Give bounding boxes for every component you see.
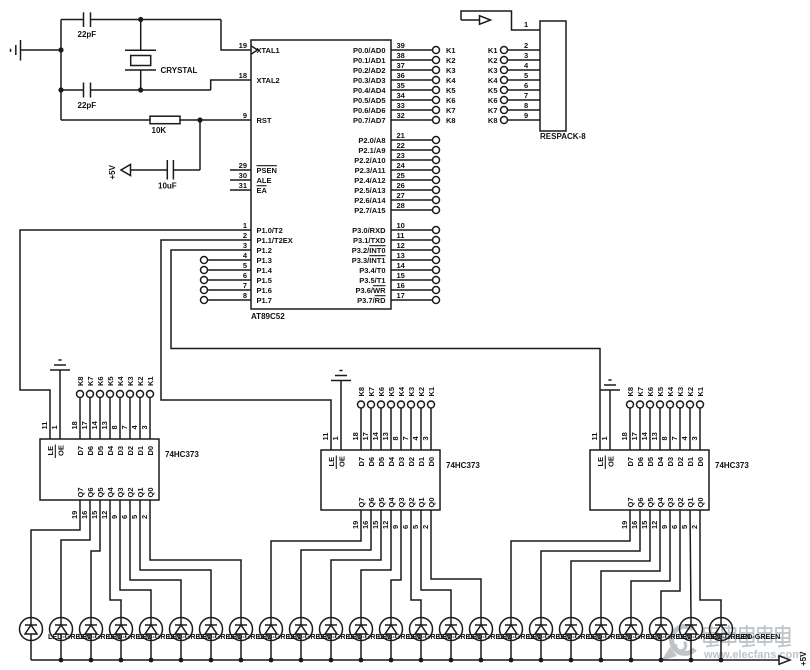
svg-text:D3: D3	[116, 446, 125, 456]
terminal K6 to RP1 pin 7	[488, 91, 540, 105]
svg-text:P3.7/RD: P3.7/RD	[357, 296, 386, 305]
svg-text:16: 16	[397, 281, 405, 290]
svg-text:K1: K1	[488, 46, 498, 55]
svg-text:K1: K1	[146, 376, 155, 386]
svg-text:Q5: Q5	[96, 487, 105, 497]
svg-text:18: 18	[70, 421, 79, 429]
wire P1.1 to U3 LE	[161, 240, 331, 450]
svg-text:P3.2/INT0: P3.2/INT0	[352, 246, 386, 255]
svg-text:K5: K5	[106, 376, 115, 386]
watermark chinese text	[704, 625, 791, 647]
svg-text:P0.1/AD1: P0.1/AD1	[353, 56, 386, 65]
terminal K7 at U2 D6	[80, 376, 95, 439]
terminal K4 to RP1 pin 5	[488, 71, 540, 85]
svg-text:9: 9	[391, 525, 400, 529]
U1 pin 29 PSEN	[230, 161, 277, 175]
svg-text:K5: K5	[488, 86, 498, 95]
capacitor C3 10uF	[158, 160, 177, 191]
U2 ground	[50, 360, 70, 370]
svg-text:P2.6/A14: P2.6/A14	[354, 196, 386, 205]
terminal circles P1.3-P1.7 with stubs	[201, 257, 252, 304]
svg-text:5: 5	[130, 515, 139, 519]
svg-text:+5V: +5V	[799, 651, 808, 666]
wire U3 Q3 to LED D13	[391, 510, 401, 618]
svg-text:P0.3/AD3: P0.3/AD3	[353, 76, 386, 85]
terminal K4 at U4 D3	[660, 386, 675, 450]
svg-text:7: 7	[243, 281, 247, 290]
LED D3 LED-GREEN	[80, 618, 151, 661]
svg-text:12: 12	[100, 511, 109, 519]
svg-text:K5: K5	[656, 387, 665, 397]
svg-text:P1.3: P1.3	[257, 256, 272, 265]
wire U2 Q7 to LED D1	[31, 500, 80, 618]
svg-text:D0: D0	[427, 457, 436, 467]
terminal K2 at U4 D1	[680, 387, 695, 450]
svg-text:34: 34	[397, 91, 406, 100]
svg-text:P3.0/RXD: P3.0/RXD	[352, 226, 386, 235]
svg-text:31: 31	[239, 181, 247, 190]
svg-text:7: 7	[524, 91, 528, 100]
terminal K2 at U2 D1	[130, 376, 145, 439]
wire left vertical rail	[60, 20, 62, 121]
capacitor C2 22pF	[78, 83, 97, 111]
svg-text:Q5: Q5	[377, 497, 386, 507]
wire ground to U4 OE	[609, 390, 611, 450]
terminal K3 to RP1 pin 4	[488, 61, 540, 75]
svg-text:30: 30	[239, 171, 247, 180]
U1 pin 21 P2.0/A8	[358, 131, 439, 145]
svg-text:P3.4/T0: P3.4/T0	[359, 266, 385, 275]
svg-text:28: 28	[397, 201, 405, 210]
U1 pin 1 P1.0/T2	[243, 221, 283, 235]
svg-text:1: 1	[600, 436, 609, 440]
U1 pin 38 P0.1/AD1	[353, 51, 456, 65]
svg-text:38: 38	[397, 51, 405, 60]
svg-text:36: 36	[397, 71, 405, 80]
svg-text:9: 9	[243, 111, 247, 120]
svg-text:P1.7: P1.7	[257, 296, 272, 305]
svg-text:ALE: ALE	[257, 176, 272, 185]
svg-text:13: 13	[650, 432, 659, 440]
svg-text:D6: D6	[636, 457, 645, 467]
svg-text:16: 16	[361, 521, 370, 529]
svg-text:2: 2	[690, 525, 699, 529]
svg-text:14: 14	[371, 431, 380, 440]
resistor R1 10K	[150, 116, 180, 135]
terminal K6 at U3 D5	[371, 387, 386, 450]
U1 pin 31 EA	[230, 181, 268, 195]
svg-text:P3.1/TXD: P3.1/TXD	[353, 236, 386, 245]
IC U1 AT89C52 body	[251, 40, 391, 321]
svg-text:19: 19	[239, 41, 247, 50]
terminal K1 at U3 D0	[421, 387, 436, 450]
wire U2 Q4 to LED D4	[110, 500, 121, 618]
U1 pin 37 P0.2/AD2	[353, 61, 456, 75]
svg-text:11: 11	[590, 433, 599, 441]
svg-text:K7: K7	[446, 106, 456, 115]
svg-text:9: 9	[524, 111, 528, 120]
svg-text:74HC373: 74HC373	[446, 461, 480, 470]
svg-text:D4: D4	[387, 456, 396, 466]
terminal K7 to RP1 pin 8	[488, 101, 540, 115]
resistor pack RP1 RESPACK-8 body	[540, 21, 586, 141]
wire C3 to +5V	[131, 169, 168, 171]
U1 pin 5 P1.4	[243, 261, 273, 275]
LED D10 LED-GREEN	[290, 618, 361, 661]
svg-text:P1.0/T2: P1.0/T2	[257, 226, 283, 235]
svg-text:D2: D2	[407, 457, 416, 467]
svg-text:D3: D3	[397, 457, 406, 467]
svg-text:15: 15	[397, 271, 405, 280]
wire U4 Q3 to LED D21	[631, 510, 670, 618]
svg-text:Q2: Q2	[676, 497, 685, 507]
terminal K6 at U4 D5	[640, 387, 655, 450]
svg-text:K4: K4	[666, 386, 675, 396]
svg-text:P0.0/AD0: P0.0/AD0	[353, 46, 386, 55]
svg-text:D0: D0	[146, 446, 155, 456]
svg-text:P2.7/A15: P2.7/A15	[354, 206, 385, 215]
U1 pin 14 P3.4/T0	[359, 261, 439, 275]
svg-text:EA: EA	[257, 186, 268, 195]
power +5V (bottom right)	[779, 651, 808, 666]
svg-text:Q6: Q6	[636, 497, 645, 507]
wire U4 Q7 to LED D17	[511, 510, 630, 618]
U1 pin 7 P1.6	[243, 281, 272, 295]
svg-text:K6: K6	[377, 387, 386, 397]
terminal K1 at U2 D0	[140, 376, 155, 439]
LED D1 LED-GREEN	[20, 618, 91, 661]
svg-text:P3.3/INT1: P3.3/INT1	[352, 256, 386, 265]
svg-text:K6: K6	[446, 96, 456, 105]
svg-text:6: 6	[670, 525, 679, 529]
terminal K8 at U4 D7	[620, 387, 635, 450]
wire XTAL2 net to pin 18	[211, 80, 251, 90]
terminal K1 at U4 D0	[690, 387, 705, 450]
svg-text:P1.5: P1.5	[257, 276, 272, 285]
LED D2 LED-GREEN	[50, 618, 121, 661]
wire U4 Q2 to LED D22	[661, 510, 680, 618]
svg-text:Q4: Q4	[387, 497, 396, 508]
svg-text:10: 10	[397, 221, 405, 230]
svg-text:3: 3	[140, 425, 149, 429]
wire U3 Q7 to LED D9	[271, 510, 361, 618]
svg-text:Q7: Q7	[357, 497, 366, 507]
terminal K4 at U3 D3	[391, 386, 406, 450]
svg-text:3: 3	[421, 436, 430, 440]
wire U4 Q1 to LED D23	[690, 510, 691, 618]
svg-text:8: 8	[391, 436, 400, 440]
svg-text:18: 18	[239, 71, 247, 80]
LED D21 LED-GREEN	[620, 618, 691, 661]
svg-text:23: 23	[397, 151, 405, 160]
svg-text:7: 7	[120, 425, 129, 429]
svg-text:37: 37	[397, 61, 405, 70]
svg-text:8: 8	[524, 101, 528, 110]
svg-text:15: 15	[90, 511, 99, 519]
svg-text:8: 8	[243, 291, 247, 300]
terminal K5 at U2 D4	[100, 376, 115, 439]
LED D12 LED-GREEN	[350, 618, 421, 661]
svg-text:9: 9	[110, 515, 119, 519]
svg-text:2: 2	[243, 231, 247, 240]
svg-text:K4: K4	[116, 376, 125, 386]
watermark url text	[703, 649, 802, 661]
svg-text:11: 11	[397, 231, 405, 240]
svg-text:D4: D4	[656, 456, 665, 466]
terminal K5 to RP1 pin 6	[488, 81, 540, 95]
U1 pin 10 P3.0/RXD	[352, 221, 439, 235]
U1 pin 36 P0.3/AD3	[353, 71, 456, 85]
wire P1.0 to U2 LE	[20, 230, 251, 439]
svg-text:15: 15	[640, 521, 649, 529]
wire XTAL1 net to pin 19	[221, 20, 251, 51]
svg-text:P2.1/A9: P2.1/A9	[358, 146, 385, 155]
U1 pin 9 RST	[243, 111, 272, 125]
svg-text:P1.4: P1.4	[257, 266, 273, 275]
svg-text:6: 6	[401, 525, 410, 529]
svg-text:Q3: Q3	[397, 497, 406, 507]
svg-text:7: 7	[401, 436, 410, 440]
wire U3 Q6 to LED D10	[301, 510, 371, 618]
LED D17 LED-GREEN	[500, 618, 571, 661]
U1 pin 4 P1.3	[243, 251, 272, 265]
U1 pin 15 P3.5/T1	[359, 271, 439, 285]
svg-text:K2: K2	[417, 387, 426, 397]
svg-text:24: 24	[397, 161, 406, 170]
svg-text:P2.0/A8: P2.0/A8	[358, 136, 385, 145]
svg-text:K1: K1	[696, 387, 705, 397]
wire RST to C3	[199, 120, 201, 170]
svg-text:14: 14	[640, 431, 649, 440]
svg-text:13: 13	[397, 251, 405, 260]
svg-text:Q0: Q0	[696, 497, 705, 507]
wire U4 Q4 to LED D20	[601, 510, 660, 618]
U1 pin 34 P0.5/AD5	[353, 91, 456, 105]
wire ground to node	[21, 49, 62, 51]
svg-text:3: 3	[690, 436, 699, 440]
terminal K3 at U3 D2	[401, 387, 416, 450]
svg-text:K6: K6	[488, 96, 498, 105]
svg-text:K3: K3	[446, 66, 456, 75]
svg-text:D7: D7	[626, 457, 635, 467]
terminal K3 at U4 D2	[670, 387, 685, 450]
svg-text:16: 16	[80, 511, 89, 519]
terminal K1 to RP1 pin 2	[488, 41, 540, 55]
svg-text:Q5: Q5	[646, 497, 655, 507]
svg-text:1: 1	[243, 221, 247, 230]
svg-text:18: 18	[351, 432, 360, 440]
svg-text:10K: 10K	[152, 126, 167, 135]
terminal K5 at U3 D4	[381, 387, 396, 450]
power +5V (top right)	[461, 16, 491, 25]
svg-text:32: 32	[397, 111, 405, 120]
svg-text:3: 3	[243, 241, 247, 250]
svg-text:8: 8	[110, 425, 119, 429]
terminal K7 at U4 D6	[630, 387, 645, 450]
svg-text:RESPACK-8: RESPACK-8	[540, 132, 586, 141]
svg-text:D1: D1	[686, 457, 695, 467]
wire U3 Q0 to LED D16	[431, 510, 481, 618]
wire U3 Q1 to LED D15	[421, 510, 451, 618]
U1 pin 11 P3.1/TXD	[353, 231, 440, 245]
svg-text:14: 14	[397, 261, 406, 270]
svg-text:74HC373: 74HC373	[715, 461, 749, 470]
svg-text:10uF: 10uF	[158, 182, 177, 191]
svg-text:19: 19	[351, 521, 360, 529]
wire U2 Q6 to LED D2	[61, 500, 90, 618]
wire U3 Q2 to LED D14	[411, 510, 421, 618]
svg-text:9: 9	[660, 525, 669, 529]
svg-text:25: 25	[397, 171, 405, 180]
svg-text:3: 3	[524, 51, 528, 60]
svg-text:D7: D7	[76, 446, 85, 456]
terminal K2 to RP1 pin 3	[488, 51, 540, 65]
IC U2 74HC373 body	[40, 439, 199, 500]
U1 pin 27 P2.6/A14	[354, 191, 439, 205]
svg-text:CRYSTAL: CRYSTAL	[161, 66, 198, 75]
LED D15 LED-GREEN	[440, 618, 511, 661]
wire U4 Q0 to LED D24	[700, 510, 721, 618]
svg-text:15: 15	[371, 521, 380, 529]
svg-text:22: 22	[397, 141, 405, 150]
terminal K8 at U2 D7	[70, 376, 85, 439]
U1 pin 32 P0.7/AD7	[353, 111, 456, 125]
wire P1.2 to U4 LE	[171, 250, 600, 450]
svg-text:K6: K6	[96, 376, 105, 386]
svg-text:OE: OE	[57, 445, 66, 456]
svg-text:P1.2: P1.2	[257, 246, 272, 255]
svg-text:Q3: Q3	[116, 487, 125, 497]
U1 pin 6 P1.5	[243, 271, 272, 285]
LED D5 LED-GREEN	[140, 618, 211, 661]
junction	[197, 117, 202, 122]
svg-text:13: 13	[381, 432, 390, 440]
U1 pin 3 P1.2	[243, 241, 272, 255]
LED D9 LED-GREEN	[260, 618, 331, 661]
terminal K4 at U2 D3	[110, 376, 125, 439]
terminal K7 at U3 D6	[361, 387, 376, 450]
U1 pin 35 P0.4/AD4	[353, 81, 456, 95]
ground (left, rotated)	[11, 40, 21, 61]
svg-text:18: 18	[620, 432, 629, 440]
LED D24 LED-GREEN	[710, 618, 781, 661]
U1 pin 24 P2.3/A11	[355, 161, 440, 175]
LED D16 LED-GREEN	[470, 618, 541, 661]
wire U2 Q5 to LED D3	[91, 500, 100, 618]
svg-text:K8: K8	[76, 376, 85, 386]
U1 pin 39 P0.0/AD0	[353, 41, 456, 55]
svg-text:19: 19	[620, 521, 629, 529]
svg-text:K7: K7	[636, 387, 645, 397]
svg-text:17: 17	[397, 291, 405, 300]
svg-text:13: 13	[100, 421, 109, 429]
svg-text:29: 29	[239, 161, 247, 170]
svg-text:K8: K8	[626, 387, 635, 397]
svg-text:19: 19	[70, 511, 79, 519]
LED D8 LED-GREEN	[230, 618, 301, 661]
svg-text:2: 2	[421, 525, 430, 529]
wire +5V to RP1 pin 1	[461, 11, 540, 30]
svg-text:K7: K7	[367, 387, 376, 397]
wire U3 Q5 to LED D11	[331, 510, 381, 618]
crystal X1 CRYSTAL	[125, 50, 198, 75]
U1 pin 13 P3.3/INT1	[352, 251, 440, 265]
watermark logo	[661, 626, 695, 661]
svg-text:LE: LE	[46, 446, 55, 456]
svg-text:14: 14	[90, 420, 99, 429]
svg-text:K5: K5	[446, 86, 456, 95]
svg-text:P1.1/T2EX: P1.1/T2EX	[257, 236, 293, 245]
U1 pin 28 P2.7/A15	[354, 201, 439, 215]
svg-text:12: 12	[397, 241, 405, 250]
svg-text:LE: LE	[327, 457, 336, 467]
svg-text:D5: D5	[646, 457, 655, 467]
wire U2 Q3 to LED D5	[120, 500, 151, 618]
svg-text:P0.6/AD6: P0.6/AD6	[353, 106, 386, 115]
svg-text:6: 6	[243, 271, 247, 280]
svg-text:22pF: 22pF	[78, 30, 97, 39]
svg-text:K1: K1	[446, 46, 456, 55]
svg-text:5: 5	[680, 525, 689, 529]
U1 pin 16 P3.6/WR	[355, 281, 439, 295]
svg-text:Q4: Q4	[656, 497, 665, 508]
svg-text:D3: D3	[666, 457, 675, 467]
svg-text:17: 17	[630, 432, 639, 440]
svg-text:K8: K8	[357, 387, 366, 397]
svg-text:K2: K2	[488, 56, 498, 65]
svg-text:Q3: Q3	[666, 497, 675, 507]
svg-text:P2.2/A10: P2.2/A10	[354, 156, 385, 165]
svg-text:P2.3/A11: P2.3/A11	[355, 166, 386, 175]
U1 pin 19 XTAL1	[239, 41, 280, 55]
svg-text:D2: D2	[676, 457, 685, 467]
terminal K2 at U3 D1	[411, 387, 426, 450]
svg-text:1: 1	[524, 20, 528, 29]
svg-text:K2: K2	[686, 387, 695, 397]
svg-text:K5: K5	[387, 387, 396, 397]
svg-text:D0: D0	[696, 457, 705, 467]
junction	[58, 87, 63, 92]
U1 pin 18 XTAL2	[239, 71, 280, 85]
terminal K6 at U2 D5	[90, 376, 105, 439]
svg-text:D7: D7	[357, 457, 366, 467]
wire crystal bottom	[140, 70, 142, 90]
svg-text:5: 5	[524, 71, 528, 80]
svg-text:K2: K2	[136, 376, 145, 386]
wire U4 Q5 to LED D19	[571, 510, 650, 618]
IC U4 74HC373 body	[590, 450, 749, 510]
LED D20 LED-GREEN	[590, 618, 661, 661]
svg-text:8: 8	[660, 436, 669, 440]
svg-text:17: 17	[361, 432, 370, 440]
svg-text:Q0: Q0	[427, 497, 436, 507]
svg-text:K2: K2	[446, 56, 456, 65]
svg-text:OE: OE	[607, 456, 616, 467]
svg-text:D1: D1	[417, 457, 426, 467]
svg-text:12: 12	[650, 521, 659, 529]
svg-text:27: 27	[397, 191, 405, 200]
wire XTAL2 net	[61, 89, 84, 91]
wire RST net to pin 9	[180, 119, 251, 121]
LED D13 LED-GREEN	[380, 618, 451, 661]
svg-text:Q2: Q2	[407, 497, 416, 507]
wire U2 Q0 to LED D8	[150, 500, 241, 618]
U1 pin 30 ALE	[230, 171, 272, 185]
svg-text:35: 35	[397, 81, 405, 90]
svg-text:2: 2	[524, 41, 528, 50]
svg-text:Q6: Q6	[86, 487, 95, 497]
U1 pin 8 P1.7	[243, 291, 272, 305]
